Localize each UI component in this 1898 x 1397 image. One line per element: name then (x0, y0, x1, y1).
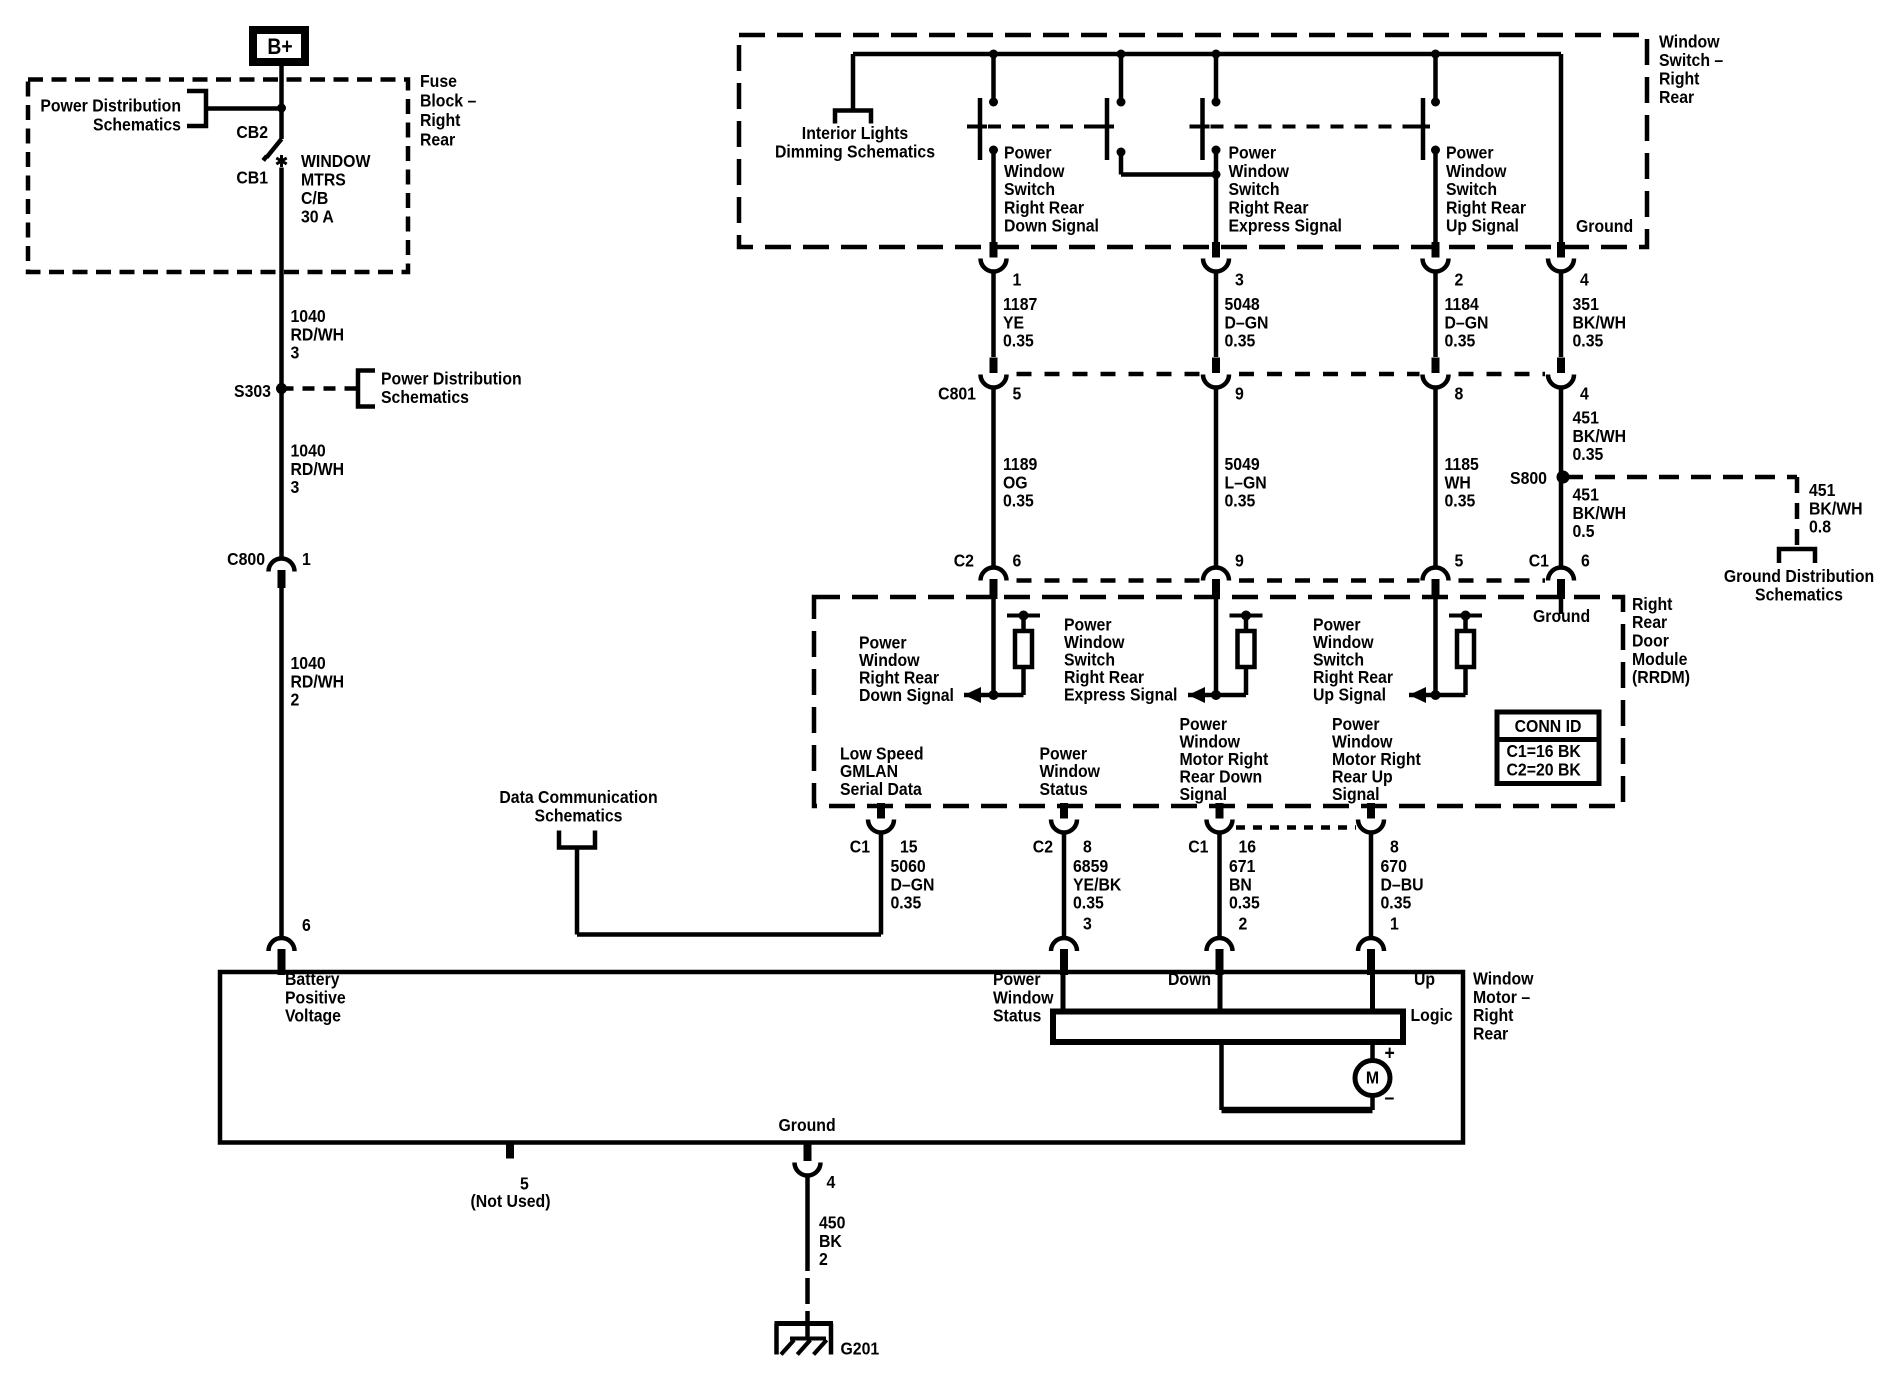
svg-text:Rear: Rear (1659, 87, 1695, 107)
svg-text:1185: 1185 (1445, 454, 1479, 474)
svg-text:451: 451 (1809, 480, 1835, 500)
svg-text:C2: C2 (954, 551, 974, 571)
svg-text:YE: YE (1003, 312, 1024, 332)
svg-text:Logic: Logic (1410, 1005, 1452, 1025)
svg-text:Schematics: Schematics (535, 805, 623, 825)
svg-text:3: 3 (1235, 270, 1244, 290)
svg-text:3: 3 (1083, 914, 1092, 934)
svg-text:1: 1 (1013, 270, 1022, 290)
svg-text:0.35: 0.35 (1073, 893, 1104, 913)
svg-text:Switch: Switch (1004, 179, 1055, 199)
svg-text:1189: 1189 (1003, 454, 1037, 474)
svg-text:Window: Window (1004, 161, 1065, 181)
svg-text:C2=20 BK: C2=20 BK (1506, 759, 1581, 779)
svg-text:Status: Status (1040, 779, 1088, 799)
svg-text:S303: S303 (234, 381, 271, 401)
svg-text:Interior Lights: Interior Lights (802, 123, 908, 143)
svg-text:2: 2 (1454, 270, 1463, 290)
svg-text:C1: C1 (1529, 551, 1549, 571)
svg-text:Express Signal: Express Signal (1228, 216, 1341, 236)
svg-text:Down Signal: Down Signal (859, 685, 954, 705)
svg-text:Ground Distribution: Ground Distribution (1724, 566, 1874, 586)
svg-text:Schematics: Schematics (381, 387, 469, 407)
svg-text:15: 15 (900, 836, 918, 856)
svg-text:C1: C1 (1188, 836, 1208, 856)
svg-text:RD/WH: RD/WH (290, 324, 344, 344)
svg-text:CONN ID: CONN ID (1515, 716, 1582, 736)
svg-text:Right Rear: Right Rear (1004, 197, 1084, 217)
svg-text:0.35: 0.35 (1003, 491, 1034, 511)
svg-text:Up: Up (1414, 969, 1435, 989)
svg-text:BN: BN (1229, 874, 1252, 894)
svg-text:5: 5 (1454, 551, 1463, 571)
svg-text:WINDOW: WINDOW (301, 151, 370, 171)
svg-text:Window: Window (1446, 161, 1507, 181)
svg-text:C800: C800 (227, 549, 265, 569)
svg-text:D–GN: D–GN (890, 874, 934, 894)
svg-text:Schematics: Schematics (93, 115, 181, 135)
svg-text:Power Distribution: Power Distribution (40, 96, 181, 116)
svg-text:Ground: Ground (779, 1115, 836, 1135)
svg-text:C1: C1 (850, 836, 870, 856)
svg-text:451: 451 (1572, 408, 1598, 428)
svg-text:S800: S800 (1510, 468, 1547, 488)
svg-text:C1=16 BK: C1=16 BK (1506, 741, 1581, 761)
svg-text:2: 2 (1239, 914, 1248, 934)
svg-text:671: 671 (1229, 856, 1255, 876)
svg-text:0.35: 0.35 (1445, 491, 1476, 511)
svg-text:4: 4 (826, 1172, 835, 1192)
svg-text:Window: Window (1473, 969, 1534, 989)
svg-text:Window: Window (993, 987, 1054, 1007)
svg-text:Up Signal: Up Signal (1313, 684, 1386, 704)
svg-text:Fuse: Fuse (420, 71, 457, 91)
svg-text:Power: Power (1228, 143, 1276, 163)
svg-text:WH: WH (1445, 472, 1471, 492)
svg-text:Express Signal: Express Signal (1064, 684, 1177, 704)
svg-text:G201: G201 (840, 1339, 879, 1359)
svg-text:16: 16 (1239, 836, 1257, 856)
svg-text:RD/WH: RD/WH (290, 459, 344, 479)
svg-text:4: 4 (1580, 270, 1589, 290)
svg-text:D–BU: D–BU (1381, 874, 1424, 894)
svg-text:Rear: Rear (420, 130, 456, 150)
svg-text:4: 4 (1580, 384, 1589, 404)
svg-text:9: 9 (1235, 384, 1244, 404)
svg-text:L–GN: L–GN (1225, 472, 1267, 492)
svg-text:1040: 1040 (290, 441, 325, 461)
svg-text:Right: Right (1632, 594, 1673, 614)
svg-text:6: 6 (1013, 551, 1022, 571)
svg-text:2: 2 (290, 690, 299, 710)
svg-text:BK/WH: BK/WH (1572, 503, 1626, 523)
svg-text:0.35: 0.35 (890, 893, 921, 913)
svg-text:+: + (1385, 1041, 1395, 1063)
svg-text:6: 6 (302, 915, 311, 935)
svg-text:CB2: CB2 (236, 122, 268, 142)
svg-text:BK/WH: BK/WH (1572, 312, 1626, 332)
svg-text:8: 8 (1083, 836, 1092, 856)
svg-text:1184: 1184 (1445, 294, 1480, 314)
svg-text:0.5: 0.5 (1572, 521, 1594, 541)
svg-text:Block –: Block – (420, 91, 476, 111)
svg-text:Signal: Signal (1179, 784, 1226, 804)
svg-text:Ground: Ground (1533, 606, 1590, 626)
svg-text:Window: Window (1228, 161, 1289, 181)
svg-text:Right: Right (1659, 69, 1700, 89)
svg-text:Dimming Schematics: Dimming Schematics (775, 142, 935, 162)
svg-text:6: 6 (1581, 551, 1590, 571)
svg-text:1040: 1040 (290, 653, 325, 673)
svg-text:(Not Used): (Not Used) (470, 1191, 550, 1211)
svg-text:8: 8 (1454, 384, 1463, 404)
svg-text:B+: B+ (267, 35, 292, 59)
svg-text:BK: BK (819, 1231, 843, 1251)
svg-text:0.8: 0.8 (1809, 517, 1831, 537)
svg-text:Data Communication: Data Communication (499, 787, 657, 807)
svg-text:Switch: Switch (1228, 179, 1279, 199)
svg-text:Power: Power (1004, 143, 1052, 163)
svg-text:Power Distribution: Power Distribution (381, 369, 522, 389)
svg-text:0.35: 0.35 (1229, 893, 1260, 913)
svg-text:0.35: 0.35 (1225, 331, 1256, 351)
svg-text:Signal: Signal (1332, 784, 1379, 804)
svg-text:Door: Door (1632, 631, 1669, 651)
svg-text:M: M (1366, 1068, 1379, 1088)
svg-text:Right: Right (420, 110, 461, 130)
svg-text:Down: Down (1168, 969, 1211, 989)
svg-text:8: 8 (1390, 836, 1399, 856)
svg-text:Power: Power (993, 969, 1041, 989)
svg-text:BK/WH: BK/WH (1809, 498, 1863, 518)
svg-text:Right: Right (1473, 1005, 1514, 1025)
svg-text:C2: C2 (1033, 836, 1053, 856)
svg-text:D–GN: D–GN (1225, 312, 1269, 332)
svg-text:0.35: 0.35 (1381, 893, 1412, 913)
svg-text:Serial Data: Serial Data (840, 779, 922, 799)
svg-text:Battery: Battery (285, 969, 340, 989)
svg-text:2: 2 (819, 1249, 828, 1269)
svg-text:351: 351 (1572, 294, 1598, 314)
svg-text:Switch: Switch (1446, 179, 1497, 199)
svg-text:0.35: 0.35 (1572, 331, 1603, 351)
svg-text:YE/BK: YE/BK (1073, 874, 1122, 894)
svg-text:3: 3 (290, 477, 299, 497)
svg-text:450: 450 (819, 1213, 845, 1233)
svg-text:5: 5 (1013, 384, 1022, 404)
svg-text:Voltage: Voltage (285, 1006, 341, 1026)
svg-text:9: 9 (1235, 551, 1244, 571)
svg-text:OG: OG (1003, 472, 1028, 492)
svg-text:Rear: Rear (1632, 612, 1668, 632)
svg-text:0.35: 0.35 (1003, 331, 1034, 351)
svg-text:CB1: CB1 (236, 168, 268, 188)
svg-text:670: 670 (1381, 856, 1407, 876)
svg-text:3: 3 (290, 343, 299, 363)
svg-text:Power: Power (1446, 143, 1494, 163)
svg-text:0.35: 0.35 (1445, 331, 1476, 351)
svg-text:D–GN: D–GN (1445, 312, 1489, 332)
svg-text:(RRDM): (RRDM) (1632, 667, 1690, 687)
svg-text:C/B: C/B (301, 188, 328, 208)
svg-text:5060: 5060 (890, 856, 925, 876)
svg-text:MTRS: MTRS (301, 170, 346, 190)
svg-text:0.35: 0.35 (1225, 491, 1256, 511)
svg-text:Right Rear: Right Rear (1228, 197, 1308, 217)
svg-text:1: 1 (1390, 914, 1399, 934)
svg-text:1: 1 (302, 549, 311, 569)
svg-text:5049: 5049 (1225, 454, 1260, 474)
svg-text:451: 451 (1572, 485, 1598, 505)
svg-text:30 A: 30 A (301, 207, 334, 227)
svg-text:BK/WH: BK/WH (1572, 426, 1626, 446)
svg-text:1187: 1187 (1003, 294, 1037, 314)
svg-text:Down Signal: Down Signal (1004, 216, 1099, 236)
svg-text:6859: 6859 (1073, 856, 1108, 876)
svg-text:Module: Module (1632, 649, 1687, 669)
svg-text:C801: C801 (938, 384, 976, 404)
svg-text:1040: 1040 (290, 306, 325, 326)
svg-text:Switch –: Switch – (1659, 50, 1723, 70)
svg-text:5048: 5048 (1225, 294, 1260, 314)
svg-text:Right Rear: Right Rear (1446, 197, 1526, 217)
svg-text:Positive: Positive (285, 987, 346, 1007)
svg-text:Motor –: Motor – (1473, 987, 1530, 1007)
svg-text:RD/WH: RD/WH (290, 671, 344, 691)
svg-text:Rear: Rear (1473, 1023, 1509, 1043)
svg-text:Status: Status (993, 1006, 1041, 1026)
svg-text:Up Signal: Up Signal (1446, 216, 1519, 236)
svg-text:Window: Window (1659, 32, 1720, 52)
svg-text:–: – (1385, 1086, 1395, 1108)
svg-text:Ground: Ground (1576, 216, 1633, 236)
svg-text:0.35: 0.35 (1572, 444, 1603, 464)
svg-text:Schematics: Schematics (1755, 585, 1843, 605)
